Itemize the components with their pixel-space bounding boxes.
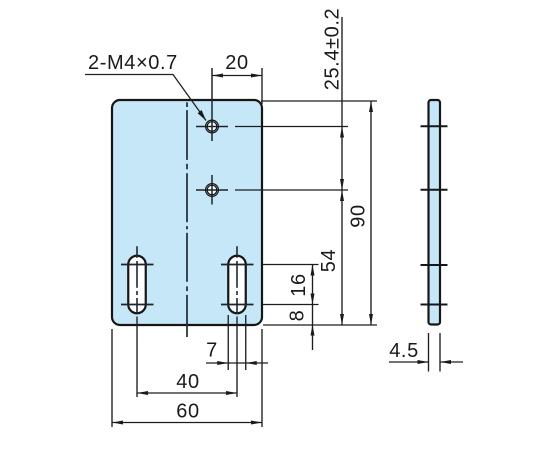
slot S2 lower arc-center crosshair (221, 304, 254, 306)
dim 7 right outside arrow (246, 361, 257, 365)
hole H1 white interior (208, 122, 216, 130)
side view tick at hole H1 level (421, 125, 448, 127)
plate front view body (112, 100, 262, 325)
dim 16 lower arrow / dim 8 upper outside arrow (311, 294, 315, 305)
slot S2 (right oval) (228, 256, 246, 314)
dim 54 lower arrow (340, 314, 344, 325)
dim 90 upper arrow (369, 101, 373, 112)
dim 40 line (137, 392, 237, 394)
dim 4.5 extension line left (428, 333, 430, 372)
hole H2 white interior (208, 186, 216, 194)
svg-text:40: 40 (176, 371, 199, 393)
dim 4.5 extension line right (439, 333, 441, 372)
side view tick at slot lower arc level (421, 304, 448, 306)
dim 16 upper arrow (311, 265, 315, 276)
hole H1 crosshair vertical / extension to 20-dim (211, 68, 213, 141)
dim 7 extension line right (slot right edge) (245, 315, 247, 370)
svg-text:60: 60 (176, 401, 199, 423)
dim 40 extension line right (slot S2 centerline) (236, 317, 238, 398)
dim 4.5 right outside arrow (440, 360, 451, 364)
dim 40 right arrow (226, 391, 237, 395)
svg-text:20: 20 (225, 52, 248, 74)
side view tick at slot upper arc level (421, 264, 448, 266)
hole H2 inner drill circle (207, 185, 217, 195)
dim 7 line with outside tails (206, 362, 268, 364)
hole H1 outer thread circle (206, 120, 219, 133)
dim 60 line (112, 422, 262, 424)
dim 4.5 line right tail (440, 361, 463, 363)
slot S2 vertical centerline (dash-dot) (236, 246, 238, 313)
svg-text:25.4±0.2: 25.4±0.2 (322, 8, 344, 91)
hole H1 inner drill circle (207, 122, 217, 132)
side view plate body (429, 100, 441, 325)
leader arrowhead (198, 110, 206, 121)
dim 25.4 lower arrow (340, 179, 344, 190)
vertical centerline of plate (dash-dot) (186, 102, 188, 337)
dim 60 right arrow (251, 421, 262, 425)
dim 8 lower outside arrow (311, 325, 315, 336)
slot S1 upper arc-center crosshair (121, 264, 154, 266)
slot S1 (left oval) (128, 256, 146, 314)
extension line slot upper arc right (263, 264, 319, 266)
dim 25.4 upper arrow (340, 127, 344, 138)
dim 4.5 left outside arrow (418, 360, 429, 364)
hole H2 outer thread circle (206, 184, 219, 197)
side view tick at hole H2 level (421, 189, 448, 191)
dim 54 upper arrow (340, 190, 344, 201)
dim 90 lower arrow (369, 314, 373, 325)
svg-text:8: 8 (287, 310, 309, 322)
dim 54 line (341, 190, 343, 325)
dim 40 extension line left (slot S1 centerline) (136, 317, 138, 398)
hole H2 crosshair horizontal (196, 189, 228, 191)
dim 20 left arrow (212, 74, 223, 78)
slot S2 upper arc-center crosshair (221, 264, 254, 266)
dim 7 left outside arrow (217, 361, 228, 365)
dim 4.5 line left tail (389, 361, 429, 363)
svg-text:7: 7 (206, 340, 218, 362)
hole H1 crosshair horizontal (196, 126, 228, 128)
svg-text:16: 16 (288, 273, 310, 296)
extension line bottom edge right (263, 324, 377, 326)
dim 60 left arrow (112, 421, 123, 425)
hole H2 crosshair vertical (211, 175, 213, 205)
dim 40 left arrow (137, 391, 148, 395)
extension line hole H1 right (235, 126, 348, 128)
dim 20 line (212, 75, 262, 77)
svg-text:54: 54 (318, 249, 340, 272)
svg-text:4.5: 4.5 (389, 340, 419, 362)
dim 16/8 shared dimension line (312, 265, 314, 351)
leader underline (85, 75, 206, 121)
dim 90 line (370, 101, 372, 325)
slot S1 lower arc-center crosshair (121, 304, 154, 306)
extension line hole H2 right (235, 189, 348, 191)
dim 20 extension line (right edge) (261, 68, 263, 104)
dim 25.4 leader/dimension line (341, 17, 343, 190)
svg-text:90: 90 (348, 204, 370, 227)
extension line slot lower arc right (263, 304, 319, 306)
dim 60 extension line left (plate left edge) (111, 329, 113, 427)
slot S1 vertical centerline (dash-dot) (136, 246, 138, 313)
dim 7 extension line left (slot left edge) (227, 315, 229, 370)
dim 60 extension line right (plate right edge) (261, 329, 263, 427)
extension line top edge right (261, 100, 377, 102)
svg-text:2-M4×0.7: 2-M4×0.7 (88, 52, 178, 74)
dim 20 right arrow (251, 74, 262, 78)
